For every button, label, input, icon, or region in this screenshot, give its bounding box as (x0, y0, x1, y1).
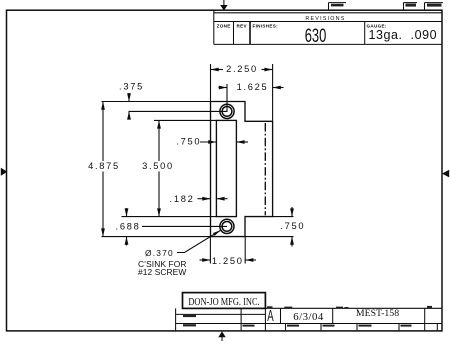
svg-text:REVISIONS: REVISIONS (305, 16, 345, 22)
dim .750 slot lines (200, 141, 216, 143)
ext line part left above (210, 64, 212, 101)
arrows 2.250 (211, 68, 219, 72)
leader line for countersink (177, 230, 221, 252)
ext line 1.250 left (209, 237, 211, 264)
arrows 1.625 (219, 86, 227, 90)
zone column (233, 22, 235, 45)
leader arrowhead (213, 230, 221, 236)
arrows .182 (202, 197, 210, 201)
bottom hole countersink (220, 219, 234, 233)
top hole countersink (220, 104, 234, 118)
arrows 1.250 (202, 258, 210, 262)
svg-text:FINISHES:: FINISHES: (253, 24, 279, 29)
right centering mark (442, 170, 449, 178)
divider A right (280, 308, 282, 323)
arrows .375 (127, 93, 131, 101)
top hole (222, 107, 232, 117)
dim .688 lines (126, 208, 128, 217)
top edge tab B (404, 2, 418, 4)
svg-text:2.250: 2.250 (226, 64, 258, 74)
top edge tab A (329, 2, 347, 4)
title block left edge (175, 308, 177, 331)
ext line slot bottom (122, 216, 217, 218)
ext line top hole center (129, 110, 228, 112)
svg-text:.182: .182 (170, 194, 195, 204)
arrows 3.500 (157, 120, 161, 128)
arrows 4.875 (101, 102, 105, 110)
left centering mark (1, 168, 8, 176)
ext line lip bottom right (273, 216, 294, 218)
title block right section top (265, 307, 442, 309)
top centering mark (220, 5, 227, 11)
title block row line 2 full (176, 323, 442, 325)
divider mest right (424, 308, 426, 331)
rev column (249, 22, 251, 45)
arrows .750 right (290, 208, 294, 216)
title block left divider (240, 308, 242, 331)
svg-text:4.875: 4.875 (88, 161, 120, 171)
dim .182 lines (198, 198, 211, 200)
svg-text:MEST-158: MEST-158 (356, 308, 399, 319)
title block company box (183, 293, 266, 309)
ext line bottom edge left (102, 236, 211, 238)
svg-text:1.250: 1.250 (212, 256, 244, 266)
svg-text:ZONE: ZONE (217, 24, 231, 29)
dim 4.875 line (102, 102, 104, 162)
svg-text:.375: .375 (119, 81, 144, 91)
dim 2.250 line (211, 69, 224, 71)
ext line top hole vertical (226, 84, 228, 111)
bottom centering mark (218, 331, 225, 337)
title block row line 1 (176, 313, 266, 315)
ext line lip right above (272, 64, 274, 121)
dim .375 line (128, 93, 130, 102)
svg-text:6/3/04: 6/3/04 (293, 311, 324, 323)
svg-text:.750: .750 (176, 137, 201, 147)
divider A left (264, 308, 266, 331)
dimension arrowheads (101, 68, 294, 262)
bend centerline (264, 123, 266, 215)
ext line slot top (154, 119, 216, 121)
svg-text:A: A (267, 306, 274, 324)
dim 1.250 lines (200, 259, 211, 261)
svg-text:REV: REV (237, 24, 248, 29)
top edge tab C (425, 2, 444, 4)
svg-text:.750: .750 (280, 221, 305, 231)
svg-text:1.625: 1.625 (237, 82, 269, 92)
gauge column (364, 22, 366, 45)
svg-text:13ga. .090: 13ga. .090 (368, 28, 437, 42)
svg-text:630: 630 (305, 26, 327, 47)
bottom hole (222, 222, 232, 232)
svg-text:.688: .688 (116, 222, 141, 232)
ext line 1.250 right (244, 237, 246, 264)
svg-text:3.500: 3.500 (142, 161, 174, 171)
bottom strip dividers (285, 324, 287, 331)
dim 1.625 lines (219, 87, 228, 89)
divider date right (332, 308, 334, 323)
arrows .750 slot (208, 140, 216, 144)
revisions table frame (213, 10, 215, 44)
dim .750 right lines (291, 207, 293, 217)
tiny illegible labels (183, 306, 432, 327)
svg-text:Ø.370: Ø.370 (145, 248, 174, 258)
arrows .688 (125, 208, 129, 216)
ext line bottom edge right (245, 236, 294, 238)
svg-text:#12 SCREW: #12 SCREW (138, 267, 186, 277)
svg-text:DON-JO MFG. INC.: DON-JO MFG. INC. (188, 296, 259, 307)
ext line bottom hole center (142, 225, 227, 227)
part outline (211, 102, 273, 237)
ext line top edge left (102, 101, 211, 103)
slot cutout (216, 120, 236, 216)
dim 3.500 line (158, 120, 160, 161)
